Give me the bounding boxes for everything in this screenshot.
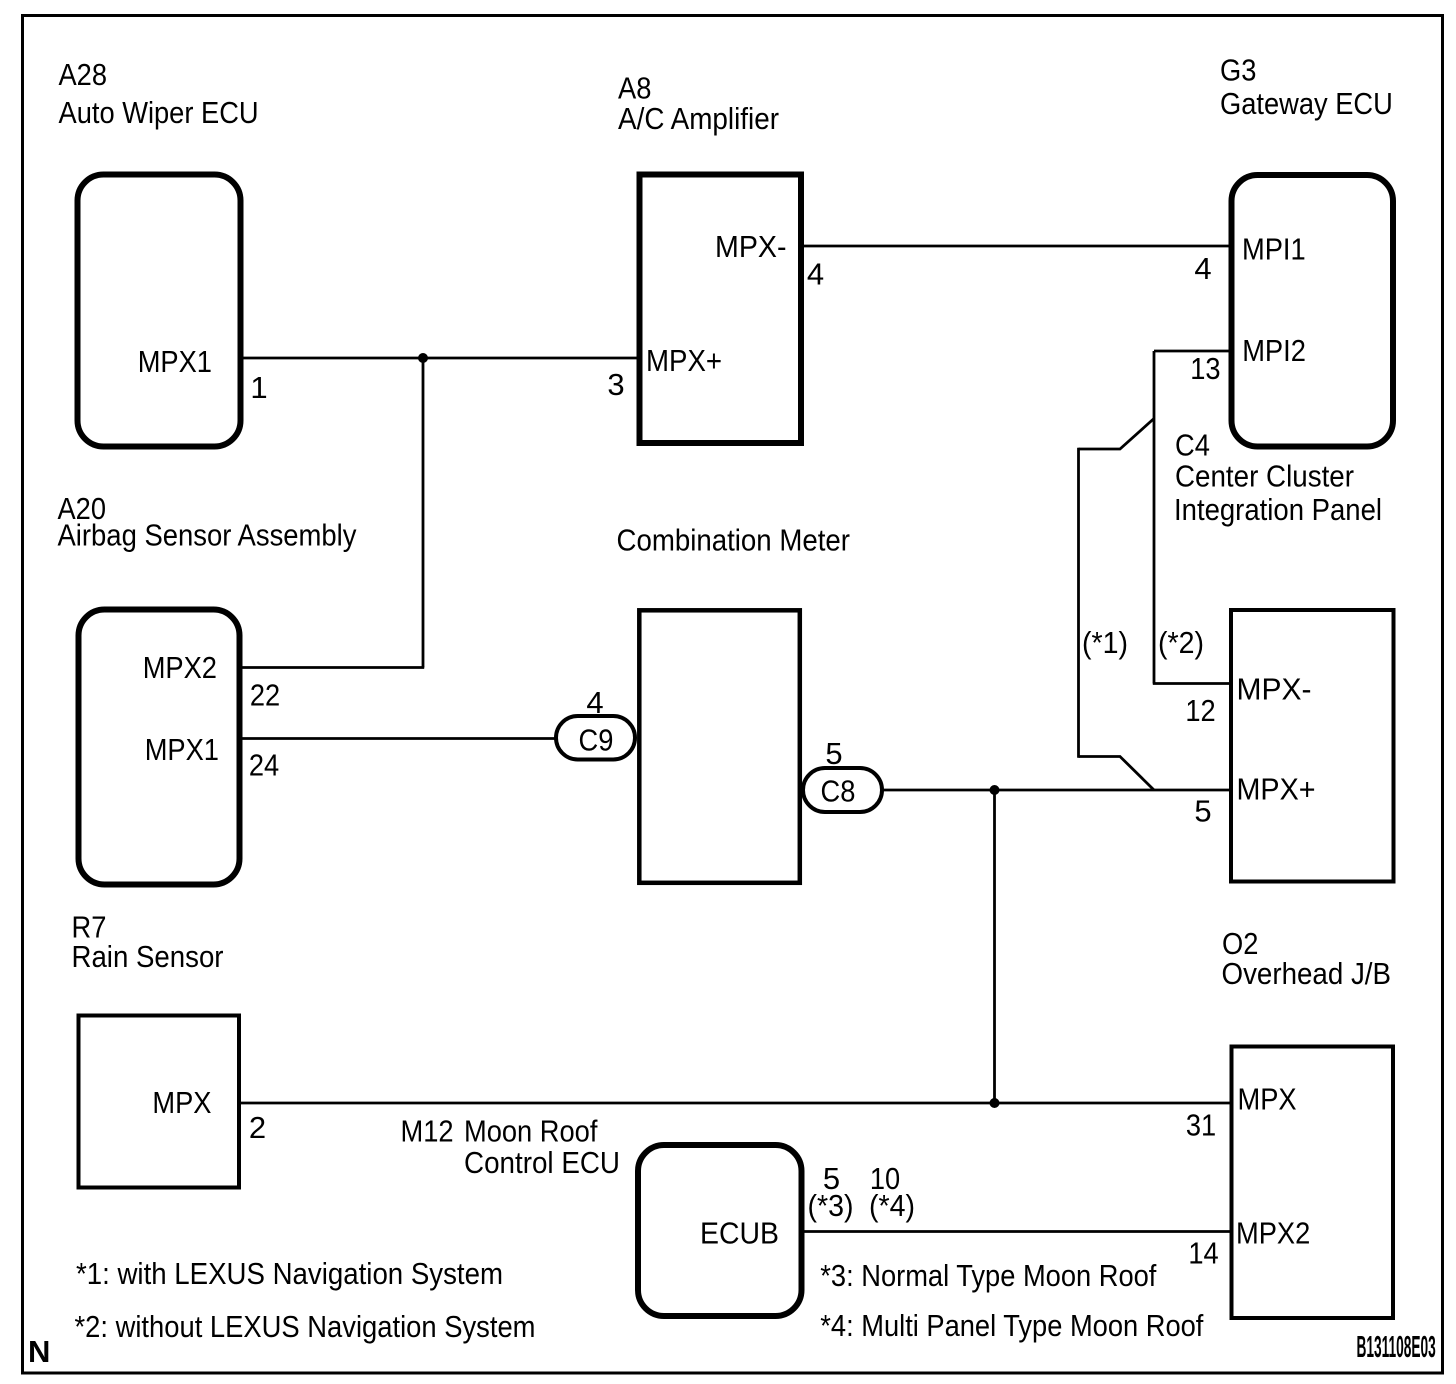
svg-text:Center Cluster: Center Cluster	[1175, 459, 1354, 494]
wire A8 MPX- pin 4 to G3 MPI1 pin 4	[799, 245, 1232, 248]
C4 (Center Cluster Integration Panel) box	[1231, 610, 1394, 882]
wire A20 MPX2 pin 22 to junction riser	[240, 666, 424, 669]
wire (*1) vertical run	[1077, 448, 1080, 758]
svg-text:Gateway ECU: Gateway ECU	[1220, 86, 1393, 121]
label R7 Rain Sensor	[72, 910, 224, 975]
svg-text:Airbag Sensor Assembly: Airbag Sensor Assembly	[58, 518, 357, 553]
svg-text:C8: C8	[821, 774, 856, 809]
wire connector C8 to C4 MPX+ pin 5	[882, 789, 1233, 792]
svg-text:*2: without LEXUS Navigation S: *2: without LEXUS Navigation System	[75, 1309, 536, 1344]
wire junction down to A20 MPX2 level	[422, 358, 425, 668]
ECU A28 (Auto Wiper ECU) box	[78, 175, 241, 447]
svg-text:13: 13	[1190, 351, 1220, 386]
junction node on MPX1 bus	[418, 353, 428, 363]
wire (*1) bottom stub and merge diagonal at C4 MPX+	[1079, 757, 1155, 791]
svg-text:MPI2: MPI2	[1242, 333, 1306, 368]
wire (*2) horizontal into C4 MPX- pin 12	[1153, 682, 1233, 685]
svg-text:A/C Amplifier: A/C Amplifier	[618, 101, 779, 136]
svg-text:G3: G3	[1220, 53, 1256, 88]
wire (*1) top stub and merge diagonal at MPI2	[1079, 419, 1155, 450]
ECU A20 (Airbag Sensor Assembly) box	[79, 610, 240, 885]
label M12 Moon Roof Control ECU	[401, 1114, 621, 1181]
label C4 Center Cluster Integration Panel	[1174, 428, 1382, 528]
svg-text:4: 4	[807, 257, 824, 292]
ECU A8 (A/C Amplifier) box	[640, 175, 802, 444]
label A20 Airbag Sensor Assembly	[58, 491, 357, 553]
label O2 Overhead J/B	[1222, 926, 1392, 991]
ECU M12 (Moon Roof Control ECU) box	[638, 1145, 802, 1316]
svg-text:MPX2: MPX2	[143, 650, 217, 685]
label G3 Gateway ECU	[1220, 53, 1393, 122]
Combination Meter box	[639, 610, 800, 883]
svg-text:MPX-: MPX-	[715, 229, 787, 264]
svg-text:B131108E03: B131108E03	[1357, 1329, 1436, 1364]
wire A20 MPX1 pin 24 to connector C9	[240, 737, 556, 740]
svg-text:(*3): (*3)	[808, 1188, 854, 1223]
svg-text:MPX2: MPX2	[1236, 1216, 1310, 1251]
svg-text:5: 5	[825, 736, 842, 771]
wire A28 MPX1 pin 1 to A8 MPX+ pin 3	[240, 357, 641, 360]
svg-text:12: 12	[1185, 693, 1215, 728]
svg-text:N: N	[28, 1334, 50, 1369]
svg-text:4: 4	[1194, 251, 1211, 286]
svg-text:31: 31	[1186, 1108, 1216, 1143]
label A28 Auto Wiper ECU	[59, 57, 259, 130]
wire M12 ECUB to O2 MPX2 pin 14	[799, 1230, 1233, 1233]
svg-text:*3: Normal Type Moon Roof: *3: Normal Type Moon Roof	[820, 1258, 1156, 1293]
svg-text:4: 4	[586, 685, 603, 720]
svg-text:Control ECU: Control ECU	[464, 1145, 620, 1180]
svg-text:Overhead J/B: Overhead J/B	[1222, 956, 1392, 991]
svg-text:*4: Multi Panel Type Moon Roof: *4: Multi Panel Type Moon Roof	[820, 1308, 1203, 1343]
svg-text:(*1): (*1)	[1082, 625, 1128, 660]
svg-text:14: 14	[1188, 1236, 1218, 1271]
svg-text:M12: M12	[401, 1114, 454, 1149]
junction node C8 bus to overhead J/B	[990, 785, 1000, 795]
svg-text:Combination Meter: Combination Meter	[617, 523, 851, 558]
svg-text:MPX: MPX	[152, 1085, 211, 1120]
svg-text:C9: C9	[579, 723, 614, 758]
svg-text:1: 1	[250, 370, 267, 405]
svg-text:22: 22	[250, 678, 280, 713]
wire G3 MPI2 pin 13 stub	[1154, 350, 1232, 353]
label A8 A/C Amplifier	[618, 71, 779, 137]
ECU G3 (Gateway ECU) box	[1232, 175, 1394, 447]
wire R7 MPX pin 2 to O2 MPX pin 31	[239, 1102, 1233, 1105]
O2 (Overhead J/B) box	[1232, 1047, 1394, 1319]
svg-text:5: 5	[1194, 794, 1211, 829]
svg-text:Moon Roof: Moon Roof	[464, 1114, 598, 1149]
R7 (Rain Sensor) box	[79, 1016, 240, 1188]
svg-text:*1: with LEXUS Navigation Syst: *1: with LEXUS Navigation System	[76, 1256, 503, 1291]
connector C9 oval	[556, 716, 635, 760]
svg-text:2: 2	[249, 1110, 266, 1145]
junction node on R7 to O2 bus	[990, 1098, 1000, 1108]
svg-text:MPX-: MPX-	[1237, 672, 1312, 707]
svg-text:A28: A28	[59, 57, 108, 92]
svg-text:24: 24	[249, 748, 279, 783]
svg-text:(*4): (*4)	[869, 1188, 915, 1223]
svg-text:Integration Panel: Integration Panel	[1174, 492, 1382, 527]
svg-text:ECUB: ECUB	[700, 1216, 779, 1251]
svg-text:MPX: MPX	[1238, 1082, 1297, 1117]
wire junction down to R7/O2 bus	[993, 790, 996, 1103]
svg-text:(*2): (*2)	[1158, 625, 1204, 660]
svg-text:MPX+: MPX+	[646, 343, 722, 378]
svg-text:MPX+: MPX+	[1237, 772, 1316, 807]
svg-text:3: 3	[607, 367, 624, 402]
svg-text:Rain Sensor: Rain Sensor	[72, 939, 224, 974]
svg-text:MPX1: MPX1	[145, 732, 219, 767]
wire (*2) vertical run MPI2 to C4 MPX-	[1153, 351, 1156, 684]
svg-text:C4: C4	[1175, 428, 1210, 463]
svg-text:MPI1: MPI1	[1242, 232, 1306, 267]
svg-text:MPX1: MPX1	[138, 344, 212, 379]
svg-text:Auto Wiper ECU: Auto Wiper ECU	[59, 95, 259, 130]
connector C8 oval	[803, 768, 882, 812]
